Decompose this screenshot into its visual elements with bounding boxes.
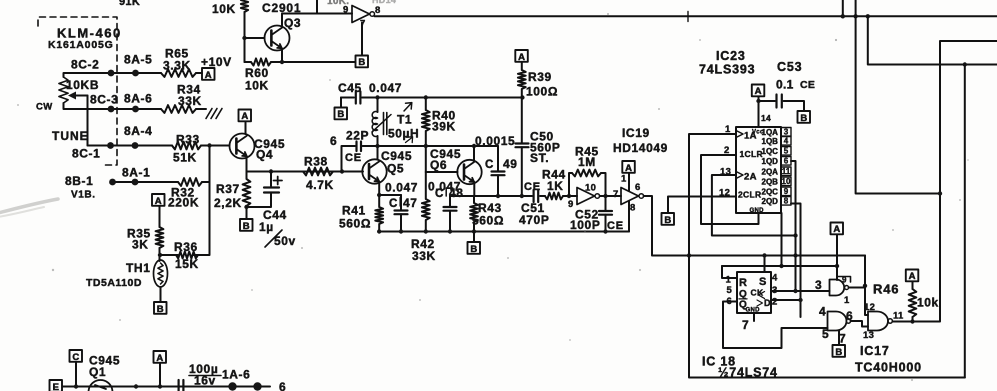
junction R35/R36 [158,253,162,257]
tag A (+10V, 8A-5 row) [202,68,215,80]
resistor R35 3K [156,227,164,248]
wire Qbar loop to gate B [723,302,828,349]
svg-text:8B-1: 8B-1 [65,174,93,188]
wire R44 to inverter 9 [563,195,577,197]
svg-text:2: 2 [772,297,778,308]
tag A (R39 top) [515,50,528,62]
crossing tick on long wire [687,12,689,22]
resistor R41 560 [375,195,383,232]
fraction slash C44 [265,230,282,247]
wire R34 to ground [196,108,206,110]
junction clock/CK bus [793,253,797,257]
tag B (rail) [468,242,481,254]
svg-text:R41: R41 [342,204,366,218]
wire C45 left [341,97,354,99]
junction loop B/outer [963,62,967,66]
wire bottom row [63,386,271,388]
svg-text:½74LS74: ½74LS74 [718,366,778,380]
svg-text:9: 9 [343,5,349,16]
wire pin6 1QD to CK bus [791,161,796,291]
resistor R39 100 [518,62,526,98]
svg-text:B: B [664,215,671,226]
svg-text:50v: 50v [274,234,296,248]
svg-text:T1: T1 [397,113,412,127]
svg-text:10k: 10k [917,296,939,310]
svg-text:100Ω: 100Ω [526,85,558,99]
pencil smudge [0,199,58,213]
junction 2A bus/CK vertical [793,233,797,237]
junction C52 top [603,194,607,198]
tag A (inv2 top) [622,161,635,173]
wire TH1 to tag B [160,287,162,302]
stub from top edge (10K feed) [316,0,318,14]
wire Q5 collector [377,146,379,160]
svg-text:0.1: 0.1 [776,78,794,92]
svg-text:2,2K: 2,2K [214,196,242,210]
node 8A-1 [132,179,139,186]
wire C45 row to R39 junction [362,97,522,99]
wire C46 left leg [342,146,356,172]
inverter IC19 pin9-8 (top) [352,6,370,23]
wire 8C-3 row [110,108,161,110]
node 8A-4 [132,142,139,149]
svg-text:B: B [835,347,842,358]
wire right loop A [856,0,940,194]
connector node 1A-6 right [253,382,261,390]
wire R33 to Q4 base [201,145,230,147]
wire gate C output [892,41,997,322]
capacitor C52 100P [605,196,607,211]
svg-text:C45: C45 [338,81,362,95]
wire tag A to R46 [912,282,914,290]
svg-text:15K: 15K [175,257,199,271]
wire base to Q3 [245,37,265,39]
tag A (R35 top) [152,194,165,206]
IC23 pin 9 box [781,187,791,196]
svg-text:2QB: 2QB [762,178,779,187]
inductor T1 50uH [377,98,379,113]
tag A (C53) [752,85,765,97]
NAND gate A (pin 3) [830,280,845,296]
wire Q5 emitter [378,182,380,196]
junction C49 bottom [496,194,500,198]
wire tag A to pin14 [758,97,760,128]
svg-text:CE: CE [800,79,815,91]
resistor R36 15K [160,252,210,259]
wire R65 to +10V tag [196,72,202,74]
svg-text:48: 48 [449,186,464,200]
capacitor C53 0.1 [759,100,776,102]
svg-text:8: 8 [630,203,636,214]
svg-text:TH1: TH1 [126,261,150,275]
svg-text:470P: 470P [519,213,549,227]
svg-text:2QC: 2QC [762,188,779,197]
resistor R40 39K [422,98,430,173]
IC23 pin 5 box [781,147,791,156]
svg-text:TUNE: TUNE [52,129,89,143]
resistor R32 220K [178,178,202,186]
svg-text:39K: 39K [432,120,456,134]
svg-text:6: 6 [330,134,337,148]
junction R45 left [567,194,571,198]
svg-text:IC23: IC23 [716,49,746,63]
svg-text:CE: CE [345,152,362,164]
tag B (R37 bottom) [240,219,253,231]
svg-text:A: A [909,271,916,282]
svg-text:1µ: 1µ [259,220,274,234]
inverter IC19 9-10 [577,188,595,205]
svg-text:13: 13 [720,167,731,178]
wire Q6 emitter row [450,195,532,197]
svg-text:R: R [739,277,747,289]
svg-text:A: A [156,353,163,364]
junction R39 bottom [520,95,524,99]
junction C46 tap [340,169,344,173]
wire R pin1 [722,266,737,278]
wire 266 bus [722,265,837,267]
node 8B-1 [109,179,116,186]
junction loopA/gateC net [938,191,942,195]
NAND gate B (4,5 - 6) [828,312,847,331]
resistor R43 560 [470,196,478,232]
wire tag A to Q4 collector [245,123,247,135]
wire D pin2 [771,299,801,301]
resistor 10K (cut off, above Q3) [241,0,248,12]
clock wedge 2A [736,172,743,179]
junction S pin/clock [762,253,766,257]
svg-text:D: D [764,298,771,308]
tag C (Q1) [70,350,83,362]
wire 10K down to Q3 base node [244,12,246,62]
wire tag-A to R35 [159,206,161,227]
resistor R44 1K [545,193,563,200]
wire tag B up to C45 row [340,98,342,108]
svg-text:49: 49 [503,157,518,171]
wire gate-A input1 [836,266,838,280]
svg-text:A: A [155,196,162,207]
svg-text:1: 1 [725,124,731,135]
svg-text:74LS393: 74LS393 [699,63,755,77]
IC23 pin 8 box [781,197,791,206]
svg-text:2A: 2A [744,172,757,183]
svg-text:1K: 1K [547,179,564,193]
junction R41 rail [377,229,381,233]
wire Q3 collector to inverter [282,14,351,28]
wire gate A output [849,287,865,289]
wire pin8 2QD bus [791,204,801,318]
tag B (C45 input) [335,108,348,120]
svg-text:CW: CW [36,102,53,113]
svg-text:TD5A110D: TD5A110D [86,277,142,289]
svg-text:1: 1 [844,295,850,306]
svg-text:10: 10 [585,183,596,194]
junction R43 rail [472,229,476,233]
svg-text:B: B [337,109,344,120]
wire emitter row Q4 to Q5 base [247,171,364,173]
wire Q6 base [426,171,458,173]
junction R42 rail [424,229,428,233]
wire stub top right [842,0,844,16]
junction D/2QD bus [798,298,802,302]
IC18 body [737,272,771,313]
svg-text:1A-6: 1A-6 [222,368,250,382]
svg-text:3.3K: 3.3K [163,59,191,73]
wire IC23 pin2 to gnd pin [701,155,759,224]
tag A (bottom) [154,351,167,363]
tag A (Q4 collector) [239,110,252,122]
junction midline/long wire [853,14,857,18]
wire inv2 output [644,196,865,256]
svg-text:B: B [358,57,365,68]
svg-text:8C-3: 8C-3 [90,93,118,107]
svg-text:GND: GND [750,208,765,214]
svg-text:2: 2 [724,145,730,156]
junction Q5 emitter node [377,193,381,197]
capacitor C44 1u/50v [270,172,272,187]
wire R39 line down / C50 [521,98,523,144]
svg-text:R39: R39 [528,70,552,84]
junction C44 tap [269,169,273,173]
tag B (TH1 bottom) [154,302,167,314]
svg-text:8C-2: 8C-2 [71,58,99,72]
wire Q3 emitter down [281,49,283,63]
svg-text:33K: 33K [412,249,436,263]
svg-text:Q5: Q5 [387,162,404,176]
svg-text:3K: 3K [132,238,149,252]
wire R35 to TH1 [159,248,161,261]
ground symbol (8A-6 row) [206,109,222,119]
svg-text:8: 8 [375,5,381,16]
svg-text:100P: 100P [570,218,600,232]
feedback resistor R45 1M [569,173,572,196]
junction loopB/long wire [866,14,870,18]
junction tag C [74,384,78,388]
svg-text:1M: 1M [578,155,596,169]
svg-text:B: B [470,244,477,255]
node 8A-6 [132,106,139,113]
svg-text:B: B [243,221,250,232]
svg-text:8A-1: 8A-1 [122,166,150,180]
svg-text:4: 4 [819,305,826,319]
wire R32 to vertical bus [202,181,210,183]
svg-text:6: 6 [784,157,789,166]
junction tag A bottom [158,384,162,388]
svg-text:6: 6 [279,380,286,391]
wire gate B gnd to tag B [838,331,840,345]
pot bottom lead to 8C-3 wire [64,103,111,109]
wire CK pin3 [771,290,830,292]
junction tank/T1 bottom [375,144,379,148]
wire clock down to gate C [865,256,868,316]
svg-text:8: 8 [784,197,789,206]
inverter IC19 7-6 [621,188,639,205]
svg-text:220K: 220K [168,196,199,210]
IC23 pin 4 box [781,137,791,146]
svg-text:10KB: 10KB [66,78,99,92]
svg-text:9: 9 [784,187,789,196]
pot wiper arrow [71,95,88,97]
svg-text:4: 4 [772,273,778,284]
wire C51 to R44 [540,195,545,197]
wire IC23 pin1 bus [689,134,965,378]
NAND gate C (12,13 - 11) [868,312,888,331]
svg-text:11: 11 [782,167,791,176]
svg-text:8A-5: 8A-5 [124,53,152,67]
junction R40 top [424,95,428,99]
IC23 pin 3 box [781,128,791,137]
svg-text:C: C [72,352,79,363]
svg-text:12: 12 [719,188,730,199]
wire IC23 pin13 to 2A bus [712,175,796,236]
node 8C-3 left [108,106,115,113]
svg-text:A: A [205,70,212,81]
svg-text:3: 3 [815,278,822,292]
svg-text:33K: 33K [178,94,202,108]
svg-text:3: 3 [784,128,789,137]
resistor R34 33K [161,105,196,113]
wire C46 row to tank [363,145,499,147]
svg-text:R33: R33 [176,133,200,147]
wire R60 to emitter node and tag B [271,61,356,63]
svg-text:560Ω: 560Ω [472,214,504,228]
transistor Q6 C945 [457,160,481,184]
clock wedge 1A [736,131,743,138]
svg-text:10: 10 [782,177,791,186]
transistor Q3 C2901 [265,26,290,51]
svg-text:5: 5 [727,285,733,296]
svg-text:C: C [485,159,494,171]
junction CK bus [793,289,797,293]
scan speckles [584,230,586,232]
capacitor C46 22P [355,142,357,152]
svg-text:1QB: 1QB [762,137,779,146]
svg-text:4.7K: 4.7K [306,178,334,192]
svg-text:5: 5 [822,327,829,341]
svg-text:16v: 16v [194,374,216,388]
svg-text:0.0015: 0.0015 [475,134,515,148]
svg-text:9: 9 [568,199,574,210]
transistor Q5 C945 [362,159,386,183]
svg-text:IC17: IC17 [860,344,890,358]
svg-text:HD14049: HD14049 [613,141,668,155]
svg-text:K161A005G: K161A005G [48,39,114,51]
junction R46 bottom [910,319,914,323]
svg-text:1QD: 1QD [762,157,779,166]
IC23 body [736,127,781,213]
junction R33/vertical [207,143,211,147]
junction 266 bus left [779,264,783,268]
svg-text:1: 1 [621,174,627,185]
resistor R38 4.7K [303,168,333,176]
resistor R46 10k [909,289,917,317]
svg-text:IC19: IC19 [622,126,650,140]
svg-text:0.047: 0.047 [369,81,402,95]
junction C52 rail [603,229,607,233]
svg-text:14: 14 [761,113,771,123]
junction stub/long wire [841,14,845,18]
wire tag B stub (rail) [473,232,475,243]
svg-text:12: 12 [864,302,875,313]
wire S pin4 up to clock [764,256,766,273]
node 8C-1 [107,142,114,149]
wire gate B out to gate C [851,321,868,327]
node 8C-2 left [108,70,115,77]
svg-text:11: 11 [893,311,904,322]
svg-text:E: E [53,382,59,391]
tag A (above gate A) [831,223,844,235]
svg-text:R38: R38 [304,155,328,169]
svg-text:8A-6: 8A-6 [124,92,152,106]
svg-text:91K: 91K [119,0,140,8]
junction T1 top [375,95,379,99]
T1 adjust arrow [372,115,391,133]
wire outer loop right edge [964,65,966,378]
wire IC23 corner down [781,213,783,266]
wire inv2 pin8 to rail [628,201,630,232]
capacitor C50 560P ST [516,142,529,144]
svg-text:C53: C53 [777,60,802,74]
svg-text:V1B.: V1B. [71,190,96,201]
svg-text:2CLR: 2CLR [738,190,761,200]
IC23 pin 11 box [781,167,791,176]
capacitor C47 0.047 [379,194,401,196]
tag B (2CLR) [662,213,675,225]
long wire inverter-8 output to right edge [375,15,997,17]
svg-text:5: 5 [784,147,789,156]
connector node 1A-6 left [228,382,236,390]
resistor R37 2.2K [243,172,251,220]
potentiometer 10KB body [59,77,68,103]
capacitor C51 470P (series) [532,190,534,202]
wiper wire down to TUNE row [87,96,89,146]
svg-text:1QC: 1QC [762,147,779,156]
svg-text:ST.: ST. [530,151,549,165]
svg-text:TC40H000: TC40H000 [855,361,922,375]
junction tank/R40 [424,144,428,148]
wire right loop B [868,16,997,64]
svg-text:9: 9 [842,276,847,285]
tag B (gate B) [833,345,846,357]
svg-text:CE: CE [607,220,624,232]
svg-text:R46: R46 [873,282,899,297]
wire Q4 emitter down [246,157,248,172]
resistor R65 3.3K [161,69,196,77]
svg-text:22P: 22P [346,129,369,143]
KLM-460 board dashed outline [38,17,117,165]
capacitor C49 [497,146,499,171]
svg-text:1QA: 1QA [762,128,779,137]
wire tag A down to 266 bus [836,235,838,267]
tag E [50,380,63,391]
wire inverter input [351,13,352,15]
junction C47 rail [399,229,403,233]
wire tag A stub (bottom) [159,364,161,387]
svg-text:13: 13 [863,330,874,341]
wire TUNE 8C-1 row [88,145,173,147]
wire pin7 down to tag B [361,23,363,56]
thermistor TH1 TD5A110D [154,260,168,287]
svg-text:6: 6 [635,182,641,193]
junction C53 tap [756,99,760,103]
svg-text:4: 4 [784,137,789,146]
vertical bus Q4-base/R32/R36 [209,146,211,255]
resistor R42 33K [422,172,430,232]
wire tag A to inv2 [628,173,630,191]
junction C50 bottom [520,194,524,198]
svg-text:C: C [435,188,444,200]
svg-text:A: A [241,111,248,122]
tag B (C53) [798,111,811,123]
